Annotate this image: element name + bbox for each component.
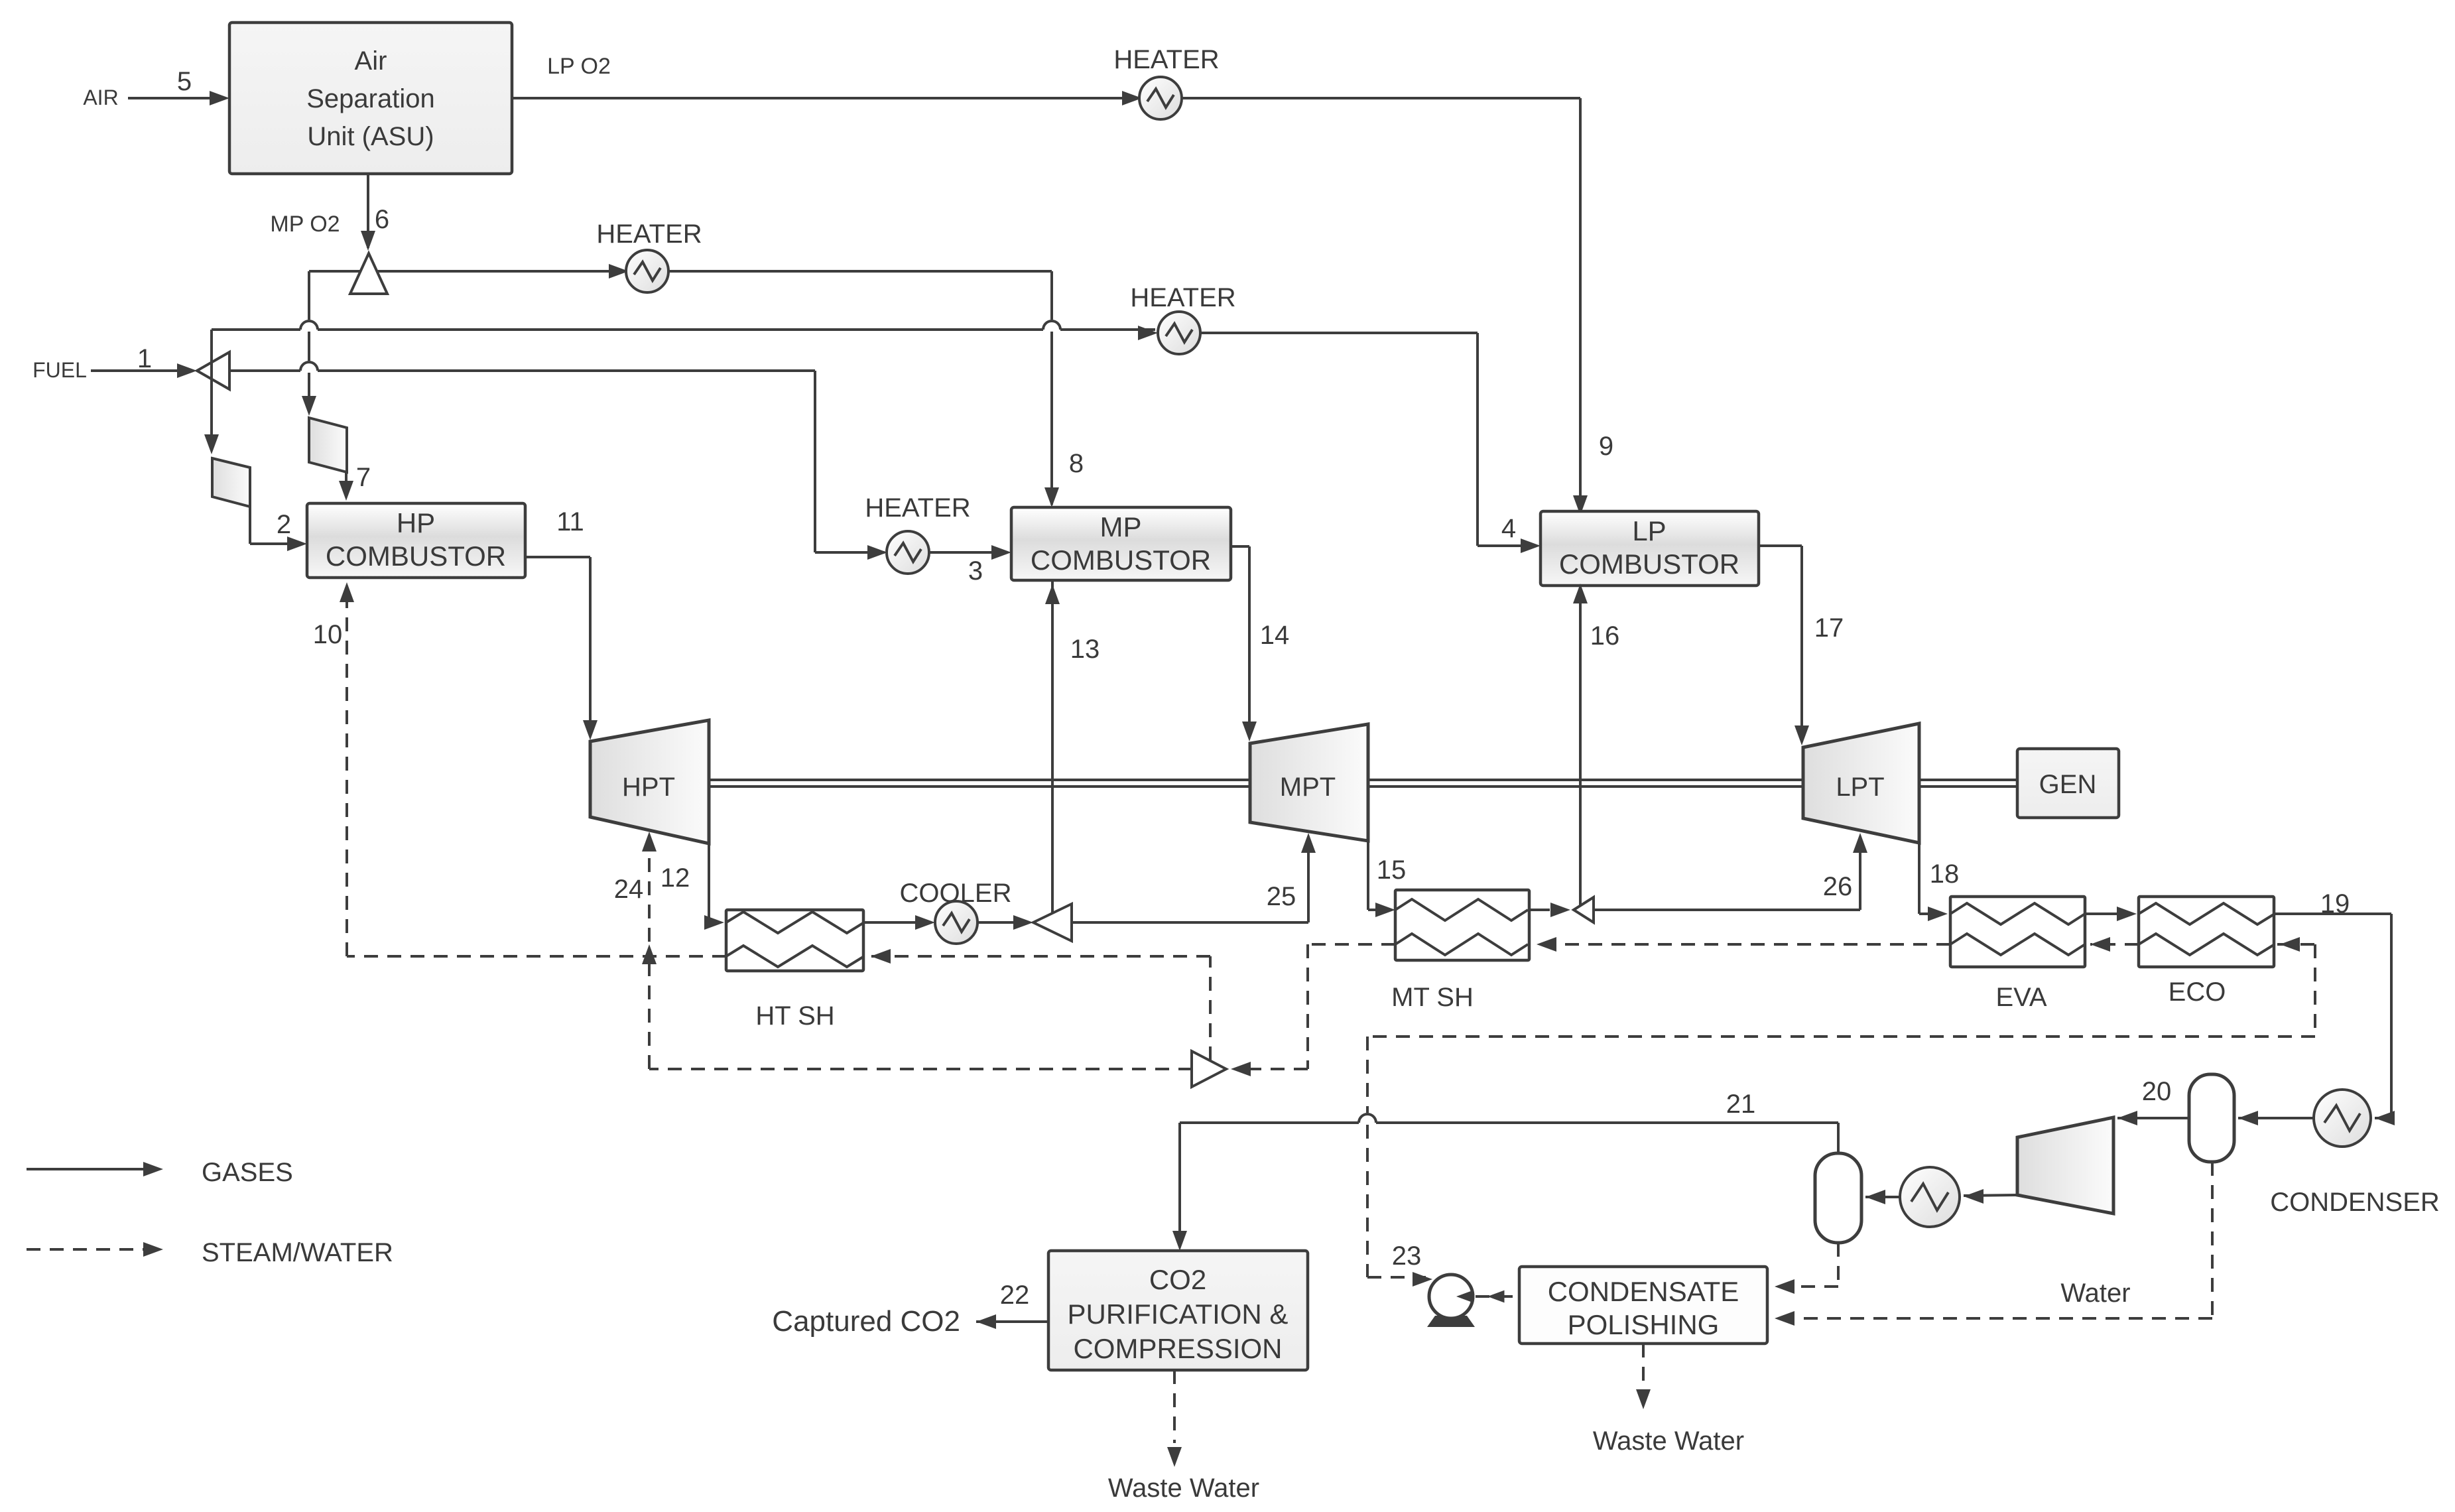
svg-text:MPT: MPT [1280, 773, 1336, 802]
svg-text:13: 13 [1070, 635, 1100, 664]
process CONDENSATE POLISHING box [1519, 1267, 1767, 1344]
wire fuel header to MP combustor heater [229, 369, 300, 372]
wire stream 10 steam to HP combustor [346, 586, 348, 956]
wire stream 5 AIR to ASU [128, 97, 225, 99]
wire steam header to HP combustor / HPT [649, 1068, 1192, 1070]
wire stream 24 HPT blade cooling steam [648, 836, 651, 942]
svg-text:AIR: AIR [83, 86, 118, 109]
ASU box Air Separation Unit [229, 23, 512, 174]
wire MP O2 header to heater A [309, 270, 626, 273]
wire stream 2 compressor to HP combustor [249, 507, 251, 544]
wire condenser to knockout drum [2238, 1117, 2314, 1119]
drum knockout drum 1 [2189, 1074, 2234, 1162]
svg-text:HEATER: HEATER [1130, 283, 1235, 312]
svg-text:1: 1 [137, 344, 152, 373]
valve steam reducing valve [1192, 1051, 1226, 1087]
wire stream 19 ECO to condenser [2274, 913, 2391, 915]
generator GEN box [2017, 749, 2119, 818]
svg-text:MP O2: MP O2 [270, 212, 340, 237]
combustor HP COMBUSTOR [307, 503, 525, 578]
turbine MPT [1250, 724, 1368, 841]
wire stream 18 LPT to EVA [1918, 843, 1920, 914]
svg-text:Separation: Separation [306, 84, 434, 113]
svg-text:LP: LP [1632, 515, 1666, 546]
process CO2 PURIFICATION & COMPRESSION box [1048, 1251, 1308, 1370]
wire pump suction from condensate polishing [1476, 1295, 1519, 1298]
wire steam: EVA to MT SH [1537, 943, 1950, 946]
wire waste water out of polishing [1642, 1344, 1645, 1386]
wire stream 14 MP combustor to MPT [1231, 545, 1249, 548]
svg-text:5: 5 [177, 67, 192, 96]
svg-text:Air: Air [355, 46, 387, 76]
wire stream 8 heater to MP combustor [668, 270, 1052, 273]
svg-text:3: 3 [968, 556, 983, 586]
svg-text:GEN: GEN [2039, 770, 2097, 799]
combustor LP COMBUSTOR [1541, 511, 1759, 586]
svg-text:CONDENSER: CONDENSER [2270, 1188, 2440, 1217]
svg-text:Waste Water: Waste Water [1108, 1474, 1259, 1503]
wire stream 7 compressor to HP combustor [345, 472, 347, 497]
wire stream 9 heater to LP combustor [1182, 97, 1580, 99]
svg-text:POLISHING: POLISHING [1568, 1309, 1720, 1340]
legend STEAM/WATER dashed arrow [27, 1248, 145, 1251]
svg-text:HEATER: HEATER [596, 220, 702, 249]
svg-text:HT SH: HT SH [755, 1001, 834, 1031]
svg-text:Unit (ASU): Unit (ASU) [307, 122, 434, 151]
wire fuel branch down to compressor 2 [210, 330, 213, 450]
svg-text:COMBUSTOR: COMBUSTOR [1031, 544, 1211, 576]
wire stream 21 drum to CO2 purification [1837, 1123, 1840, 1153]
svg-text:CO2: CO2 [1149, 1264, 1206, 1295]
svg-text:LP O2: LP O2 [547, 54, 611, 79]
svg-text:4: 4 [1501, 514, 1516, 543]
wire stream 17 LP combustor to LPT [1759, 544, 1802, 547]
wire stream 3 heater to MP combustor [929, 551, 1007, 554]
valve junction valve (stream 26) [1574, 897, 1594, 922]
valve fuel splitter triangle [197, 352, 229, 389]
svg-text:12: 12 [661, 863, 690, 893]
svg-text:7: 7 [356, 463, 371, 492]
svg-text:25: 25 [1267, 882, 1296, 911]
wire stream 1 fuel inlet [91, 369, 193, 372]
wire waste water out of CO2 box [1173, 1370, 1176, 1443]
svg-text:Waste Water: Waste Water [1593, 1426, 1744, 1456]
wire drum 2 condensate to polishing [1837, 1243, 1840, 1287]
wire compressor to intercooler [1964, 1195, 2017, 1196]
wire cooler to check valve [977, 921, 1029, 924]
svg-text:STEAM/WATER: STEAM/WATER [202, 1238, 393, 1267]
svg-text:10: 10 [313, 620, 343, 649]
wire EVA to ECO gas line [2085, 913, 2133, 915]
svg-text:HEATER: HEATER [1113, 45, 1219, 74]
wire recycle gas header to heater C [212, 328, 300, 331]
svg-text:9: 9 [1599, 432, 1613, 461]
wire LP O2 line ASU to heater [512, 97, 1139, 99]
wire stream 22 captured CO2 out [976, 1320, 1048, 1323]
wire stream 26 valve to LPT [1594, 909, 1860, 911]
valve O2 splitter triangle [350, 253, 387, 294]
svg-text:16: 16 [1590, 621, 1620, 651]
wire stream 6 ASU to O2 splitter [367, 174, 369, 248]
wire stream 25 valve to MPT [1072, 921, 1308, 924]
svg-text:2: 2 [277, 510, 291, 539]
turbine HPT [590, 720, 709, 844]
svg-text:19: 19 [2320, 889, 2350, 918]
svg-text:COMBUSTOR: COMBUSTOR [326, 540, 506, 572]
wire stream 13 junction to MP combustor [1051, 580, 1054, 914]
valve check valve (stream 25 line) [1033, 904, 1072, 941]
wire stream 23 feedwater down leg [1366, 1037, 1369, 1113]
svg-text:PURIFICATION &: PURIFICATION & [1068, 1298, 1289, 1330]
heat-exchanger MT SH box [1395, 890, 1529, 960]
wire turbine shaft MPT-LPT [1368, 779, 1803, 781]
wire steam header to stream 10 riser [347, 955, 726, 958]
svg-text:17: 17 [1814, 613, 1844, 643]
svg-text:8: 8 [1069, 449, 1084, 478]
svg-text:20: 20 [2142, 1077, 2172, 1106]
heat-exchanger HT SH box [726, 910, 863, 971]
svg-text:HP: HP [397, 507, 435, 538]
heat-exchanger ECO box [2139, 897, 2274, 967]
wire HT SH to cooler [863, 921, 931, 924]
turbine LPT [1803, 724, 1919, 843]
wire steam: ECO to EVA [2090, 943, 2139, 946]
svg-text:MP: MP [1100, 511, 1142, 542]
compressor fuel compressor (stream 2) [212, 458, 250, 507]
wire stream 15 MPT to MT SH [1367, 841, 1369, 910]
svg-text:23: 23 [1392, 1241, 1422, 1271]
legend GASES solid arrow [27, 1168, 149, 1170]
svg-text:26: 26 [1823, 872, 1853, 901]
wire stream 20 drum to recycle compressor [2117, 1117, 2189, 1119]
svg-text:HEATER: HEATER [865, 493, 970, 523]
wire steam: ECO feedwater loop [2277, 943, 2315, 946]
combustor MP COMBUSTOR [1011, 507, 1231, 580]
svg-text:COMPRESSION: COMPRESSION [1073, 1333, 1282, 1364]
wire turbine shaft LPT-GEN [1919, 779, 2017, 781]
svg-text:GASES: GASES [202, 1158, 293, 1187]
svg-text:6: 6 [375, 205, 389, 234]
svg-text:21: 21 [1726, 1090, 1756, 1119]
wire stream 11 HP combustor to HPT [525, 556, 590, 558]
svg-text:Captured CO2: Captured CO2 [772, 1305, 960, 1338]
wire MT SH outlet to junction valve [1529, 909, 1550, 911]
condenser CONDENSER circle [2314, 1090, 2371, 1147]
heat-exchanger EVA box [1950, 897, 2085, 967]
svg-text:COMBUSTOR: COMBUSTOR [1559, 548, 1739, 580]
pump condensate pump [1427, 1316, 1475, 1327]
wire steam branch to HT SH [1209, 956, 1212, 1060]
svg-text:LPT: LPT [1836, 773, 1884, 802]
wire O2 branch down to compressor 7 [308, 271, 310, 320]
svg-text:CONDENSATE: CONDENSATE [1548, 1276, 1739, 1307]
svg-text:ECO: ECO [2169, 977, 2226, 1007]
wire turbine shaft HPT-MPT [709, 779, 1250, 781]
svg-text:15: 15 [1377, 855, 1407, 885]
svg-text:22: 22 [1000, 1281, 1030, 1310]
svg-text:11: 11 [556, 507, 584, 536]
compressor CO2 recycle compressor [2017, 1117, 2113, 1214]
svg-text:24: 24 [614, 875, 644, 904]
wire stream 16 MT SH junction to LP combustor [1579, 586, 1582, 907]
svg-text:14: 14 [1260, 621, 1290, 650]
wire drum 1 water to polishing [2211, 1162, 2214, 1318]
wire steam to reducing valve [1251, 1068, 1308, 1070]
svg-text:FUEL: FUEL [32, 358, 87, 382]
wire stream 12 HPT to HT SH [708, 844, 710, 922]
svg-text:EVA: EVA [1995, 983, 2046, 1012]
wire stream 4 heater to LP combustor [1200, 332, 1478, 334]
wire intercooler to separator drum 2 [1865, 1196, 1900, 1198]
cooler recycle intercooler circle [1900, 1167, 1960, 1227]
svg-text:MT SH: MT SH [1391, 983, 1474, 1012]
compressor O2 compressor (stream 7) [309, 418, 347, 472]
svg-text:Water: Water [2060, 1279, 2130, 1308]
svg-text:HPT: HPT [622, 773, 675, 802]
drum separator drum 2 [1815, 1153, 1861, 1243]
svg-text:18: 18 [1930, 859, 1960, 889]
wire steam: MT SH outlet down leg [1308, 943, 1395, 946]
